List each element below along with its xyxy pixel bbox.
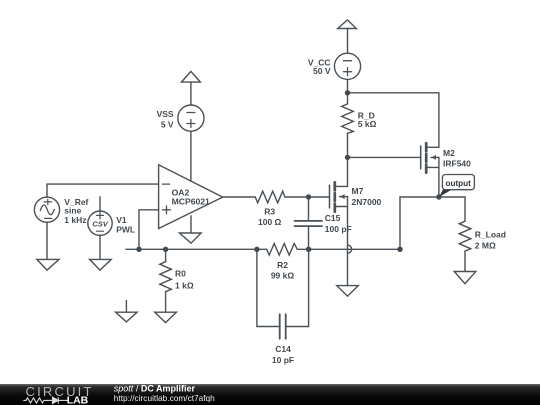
ground below V1 [90,259,112,270]
voltage source V_Ref [34,197,59,222]
svg-text:C14: C14 [275,344,291,354]
svg-text:output: output [445,179,471,188]
wire VSS to op-amp top pin [190,131,192,181]
voltage source V_CC [334,53,360,79]
svg-text:2N7000: 2N7000 [352,197,382,207]
ground below M7 [337,286,359,297]
wire C14 left branch [257,249,280,326]
svg-text:PWL: PWL [116,224,135,234]
wire R0 top lead [165,249,167,261]
ground below R0 [155,312,177,322]
wire R3 to M7 gate [285,196,330,198]
node R_D/M7 drain/M2 gate [345,155,350,160]
wire C14 right branch [286,249,309,326]
node R0/feedback [163,247,168,252]
node R3/C15/M7 gate [306,194,311,199]
svg-text:IRF540: IRF540 [443,158,471,168]
power flag VSS [181,71,200,82]
wire op-amp output to R3 [223,196,256,198]
output callout [439,175,474,198]
wire output to R_Load [464,197,466,221]
svg-text:1 kHz: 1 kHz [64,215,86,225]
op-amp OA2 [159,165,223,229]
wire V1 top stub [99,197,101,212]
svg-text:R0: R0 [175,269,186,279]
svg-text:M2: M2 [443,148,455,158]
svg-text:R3: R3 [264,206,275,216]
node C14 left/feedback [254,247,259,252]
voltage source VSS [178,105,204,131]
wire hop at M7 source over feedback row [348,245,352,253]
svg-text:MCP6021: MCP6021 [172,197,210,207]
wire M7 source to ground [347,207,349,286]
wire V1 bottom to ground [99,235,101,259]
wire R0 bottom lead [165,292,167,313]
svg-text:100 pF: 100 pF [325,224,352,234]
node plus-branch/feedback [136,247,141,252]
svg-text:99 kΩ: 99 kΩ [271,270,295,280]
wire VSS arrow stub [190,82,192,105]
svg-text:2 MΩ: 2 MΩ [475,240,496,250]
wire M2 source down to output node [438,168,440,198]
resistor R0 [160,262,172,292]
wire op-amp plus input branch [139,210,159,250]
resistor R_D [342,104,354,133]
capacitor C15 [295,221,323,226]
resistor R2 [267,244,298,256]
svg-text:C15: C15 [325,213,341,223]
ground below R_Load [454,272,476,284]
wire V_CC node to M2 drain [348,93,439,148]
svg-text:CSV: CSV [92,219,108,228]
node output/feedback [397,247,402,252]
logo resistor-diode symbol [23,397,68,403]
resistor R_Load [459,221,471,251]
resistor R3 [255,191,285,203]
wire feedback row right of R2 [297,248,400,250]
capacitor C14 [280,314,286,339]
transistor M2 [421,143,439,172]
footer bar [0,384,540,405]
ground floating [116,312,138,322]
junction dots [136,90,441,252]
voltage source V1 [88,211,112,235]
node V_CC/R_D/M2 drain [345,90,350,95]
wire V_CC bottom to R_D [347,79,349,104]
svg-text:VSS: VSS [157,109,174,119]
wire C15 top lead [308,197,310,221]
power flag V_CC [338,20,357,29]
ground below op-amp [180,233,202,243]
svg-text:100 Ω: 100 Ω [258,217,282,227]
wire V_Ref top to op-amp minus input [47,184,159,197]
svg-text:50 V: 50 V [313,66,331,76]
ground below V_Ref [37,259,59,270]
wire R_D bottom to M7 drain [347,133,349,186]
svg-text:5 kΩ: 5 kΩ [358,119,377,129]
svg-text:M7: M7 [352,186,364,196]
svg-text:10 pF: 10 pF [272,355,294,365]
svg-text:http://circuitlab.com/ct7afqh: http://circuitlab.com/ct7afqh [114,393,215,403]
svg-text:1 kΩ: 1 kΩ [175,280,194,290]
wire R_Load bottom to ground [464,251,466,271]
wire floating ground stub [125,300,127,312]
wire output row [400,196,465,198]
wire V_CC arrow stub [347,29,349,54]
svg-text:LAB: LAB [67,395,89,405]
transistor M7 [330,182,348,211]
wire R_D bottom node to M2 gate [348,156,421,158]
node output/M2 source [436,194,441,199]
node C15-C14/feedback [306,247,311,252]
wire V_Ref bottom to ground [46,222,48,259]
svg-text:5 V: 5 V [161,120,174,130]
svg-text:R2: R2 [277,260,288,270]
wire C15 bottom lead [308,226,310,249]
wire op-amp bottom pin to ground [190,216,192,233]
svg-text:R_Load: R_Load [475,230,506,240]
wire feedback row left of R2 [126,248,267,250]
wire output to feedback row [399,197,401,249]
